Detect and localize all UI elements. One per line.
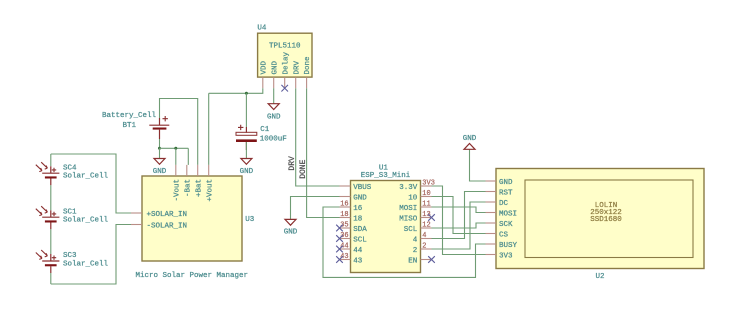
svg-text:U3: U3 bbox=[245, 216, 255, 224]
svg-text:CS: CS bbox=[499, 232, 509, 240]
capacitor C1 bbox=[236, 125, 257, 150]
svg-text:SC1: SC1 bbox=[63, 208, 77, 216]
svg-text:BUSY: BUSY bbox=[499, 242, 518, 250]
svg-text:MOSI: MOSI bbox=[399, 205, 417, 213]
svg-text:Micro Solar Power Manager: Micro Solar Power Manager bbox=[136, 272, 249, 280]
wire solar chain SC4-SC1 bbox=[50, 185, 52, 210]
wire solar chain top segment bbox=[50, 154, 52, 166]
U3 pin +Bat bbox=[197, 165, 199, 176]
svg-text:44: 44 bbox=[353, 247, 363, 255]
svg-text:16: 16 bbox=[340, 201, 348, 209]
svg-text:RST: RST bbox=[499, 190, 513, 198]
ground above U2 (inverted) bbox=[463, 135, 477, 149]
wire U1 GND to ground bbox=[291, 197, 340, 220]
svg-text:DONE: DONE bbox=[299, 159, 308, 178]
svg-text:C1: C1 bbox=[260, 126, 270, 134]
U1 right pin SCL bbox=[421, 227, 432, 229]
U3 pin +Vout bbox=[208, 165, 210, 176]
U1 right pin 4 bbox=[421, 238, 432, 240]
battery BT1 bbox=[149, 116, 169, 139]
svg-text:12: 12 bbox=[422, 222, 430, 230]
U1 right pin 10 bbox=[421, 196, 432, 198]
svg-text:+SOLAR_IN: +SOLAR_IN bbox=[147, 211, 188, 219]
wire solar chain bottom segment bbox=[50, 273, 52, 284]
wire MOSI to U2 MOSI bbox=[432, 207, 486, 213]
U4 pin GND bbox=[273, 77, 275, 88]
svg-text:GND: GND bbox=[267, 113, 281, 121]
svg-text:GND: GND bbox=[353, 195, 367, 203]
U4 pin Done bbox=[306, 77, 308, 88]
svg-text:Done: Done bbox=[304, 56, 312, 74]
U1 left pin 18 bbox=[340, 217, 351, 219]
svg-text:4: 4 bbox=[422, 232, 426, 240]
svg-text:SSD1680: SSD1680 bbox=[590, 216, 622, 224]
svg-text:16: 16 bbox=[353, 205, 363, 213]
junction -Vout tap bbox=[174, 147, 177, 150]
wire GPIO10 to U2 CS bbox=[432, 197, 486, 234]
U1 right pin 3.3V bbox=[421, 185, 432, 187]
mcu U1 body bbox=[351, 181, 421, 273]
U1 right pin MISO bbox=[421, 217, 432, 219]
U2 pin SCK bbox=[486, 222, 497, 224]
wire DRV net to U1 VBUS bbox=[296, 88, 340, 186]
ground below C1 bbox=[240, 159, 254, 177]
svg-text:3V3: 3V3 bbox=[499, 253, 513, 261]
no-connect on U1 MISO bbox=[428, 214, 435, 221]
svg-text:2: 2 bbox=[413, 247, 418, 255]
wire solar chain SC1-SC3 bbox=[50, 229, 52, 254]
U1 left pin SDA bbox=[340, 227, 351, 229]
U4 pin Delay bbox=[284, 77, 286, 88]
svg-text:Solar_Cell: Solar_Cell bbox=[63, 173, 109, 181]
svg-text:MISO: MISO bbox=[399, 216, 418, 224]
svg-text:EN: EN bbox=[408, 258, 417, 266]
display U2 body bbox=[496, 169, 704, 269]
svg-text:11: 11 bbox=[422, 201, 430, 209]
svg-text:SC4: SC4 bbox=[63, 164, 77, 172]
svg-text:U2: U2 bbox=[595, 273, 604, 281]
ground below battery bbox=[153, 159, 167, 177]
junction battery minus node bbox=[158, 147, 161, 150]
no-connect on U1 pin 43 bbox=[336, 256, 343, 263]
svg-text:SCK: SCK bbox=[499, 221, 513, 229]
U4 pin VDD bbox=[262, 77, 264, 88]
svg-text:GND: GND bbox=[284, 229, 298, 237]
U3 pin -Bat bbox=[186, 165, 188, 176]
svg-text:3.3V: 3.3V bbox=[399, 184, 418, 192]
svg-text:-SOLAR_IN: -SOLAR_IN bbox=[147, 223, 188, 231]
solar cell SC3 bbox=[36, 250, 60, 273]
U2 pin GND bbox=[486, 180, 497, 182]
wire -Bat riser bbox=[187, 148, 189, 165]
ground below U1 bbox=[284, 219, 298, 236]
wire solar loop bottom to -SOLAR_IN bbox=[51, 225, 131, 285]
no-connect on U4 Delay pin bbox=[281, 85, 288, 92]
no-connect on U1 pin 44 bbox=[336, 246, 343, 253]
svg-text:Delay: Delay bbox=[282, 51, 290, 74]
svg-text:2: 2 bbox=[422, 243, 426, 251]
U1 left pin GND bbox=[340, 196, 351, 198]
svg-text:VDD: VDD bbox=[260, 60, 268, 74]
wire SCL to U2 SCK bbox=[432, 223, 486, 228]
svg-text:-Vout: -Vout bbox=[173, 179, 181, 202]
svg-text:VBUS: VBUS bbox=[353, 184, 372, 192]
wire C1 bottom lead bbox=[245, 142, 247, 159]
solar cell SC1 bbox=[36, 206, 60, 229]
svg-text:SCL: SCL bbox=[404, 226, 418, 234]
wire GPIO2 to U2 DC bbox=[432, 202, 486, 249]
svg-text:GND: GND bbox=[463, 135, 477, 143]
U1 left pin VBUS bbox=[340, 185, 351, 187]
U2 pin DC bbox=[486, 201, 497, 203]
U1 left pin 44 bbox=[340, 248, 351, 250]
U1 left pin 16 bbox=[340, 206, 351, 208]
svg-text:10: 10 bbox=[422, 190, 430, 198]
svg-text:ESP_S3_Mini: ESP_S3_Mini bbox=[361, 172, 411, 180]
svg-text:+Vout: +Vout bbox=[206, 179, 214, 202]
svg-text:DC: DC bbox=[499, 200, 509, 208]
U1 left pin SCL bbox=[340, 238, 351, 240]
svg-text:18: 18 bbox=[353, 216, 362, 224]
svg-text:-Bat: -Bat bbox=[184, 179, 192, 197]
svg-text:GND: GND bbox=[153, 168, 167, 176]
svg-text:GND: GND bbox=[499, 179, 513, 187]
svg-text:SCL: SCL bbox=[353, 237, 367, 245]
svg-text:TPL5110: TPL5110 bbox=[269, 43, 301, 51]
display U2 screen rectangle bbox=[525, 180, 693, 258]
wire U4 VDD to power rail bbox=[209, 88, 263, 93]
U1 left pin 43 bbox=[340, 259, 351, 261]
svg-text:SDA: SDA bbox=[353, 226, 367, 234]
U2 pin MOSI bbox=[486, 212, 497, 214]
wire 3.3V to U2 3V3 bbox=[432, 186, 486, 255]
svg-text:4: 4 bbox=[413, 237, 418, 245]
wire GPIO4 to U2 RST bbox=[432, 192, 486, 239]
svg-text:GND: GND bbox=[240, 168, 254, 176]
svg-text:DRV: DRV bbox=[293, 60, 301, 74]
svg-text:Solar_Cell: Solar_Cell bbox=[63, 260, 109, 268]
U2 pin RST bbox=[486, 191, 497, 193]
svg-text:Battery_Cell: Battery_Cell bbox=[102, 112, 157, 120]
U4 pin DRV bbox=[295, 77, 297, 88]
svg-text:+Bat: +Bat bbox=[195, 179, 203, 197]
wire battery plus to U3 +Bat bbox=[160, 99, 198, 165]
U3 pin -SOLAR_IN bbox=[131, 224, 142, 226]
U3 pin +SOLAR_IN bbox=[131, 212, 142, 214]
no-connect on U1 pin 36 bbox=[336, 235, 343, 242]
svg-text:U4: U4 bbox=[257, 24, 267, 32]
svg-text:18: 18 bbox=[340, 211, 348, 219]
svg-text:1000uF: 1000uF bbox=[260, 136, 287, 144]
svg-text:43: 43 bbox=[353, 258, 363, 266]
timer U4 body bbox=[258, 33, 312, 77]
wire U2 GND up to ground bbox=[470, 149, 486, 181]
svg-text:BT1: BT1 bbox=[123, 122, 137, 130]
junction power rail at C1 tap bbox=[245, 92, 248, 95]
wire DONE net to U1 pin18 bbox=[307, 88, 340, 217]
U2 pin 3V3 bbox=[486, 254, 497, 256]
U3 pin -Vout bbox=[175, 165, 177, 176]
U1 right pin 2 bbox=[421, 248, 432, 250]
wire U4 GND pin down bbox=[273, 88, 275, 104]
wire solar loop top to +SOLAR_IN bbox=[51, 154, 131, 213]
svg-text:SC3: SC3 bbox=[63, 252, 77, 260]
no-connect on U1 EN bbox=[428, 256, 435, 263]
svg-text:DRV: DRV bbox=[288, 156, 297, 171]
wire minus rail bbox=[160, 147, 189, 149]
solar cell SC4 bbox=[36, 162, 60, 185]
U2 pin CS bbox=[486, 233, 497, 235]
svg-text:GND: GND bbox=[271, 60, 279, 74]
wire GPIO16 to U2 BUSY bbox=[323, 207, 486, 277]
wire -Vout riser bbox=[175, 148, 177, 165]
U2 pin BUSY bbox=[486, 243, 497, 245]
U1 right pin EN bbox=[421, 259, 432, 261]
U1 right pin MOSI bbox=[421, 206, 432, 208]
wire +Vout riser to U3 bbox=[208, 93, 210, 165]
svg-text:MOSI: MOSI bbox=[499, 211, 517, 219]
wire battery node to ground bbox=[159, 148, 161, 158]
ground below U4 bbox=[267, 104, 281, 122]
no-connect on U1 pin 35 bbox=[336, 225, 343, 232]
wire C1 top lead bbox=[245, 93, 247, 127]
svg-text:Solar_Cell: Solar_Cell bbox=[63, 217, 109, 225]
svg-text:10: 10 bbox=[408, 195, 418, 203]
power manager U3 body bbox=[142, 176, 242, 261]
wire battery minus down bbox=[159, 139, 161, 148]
